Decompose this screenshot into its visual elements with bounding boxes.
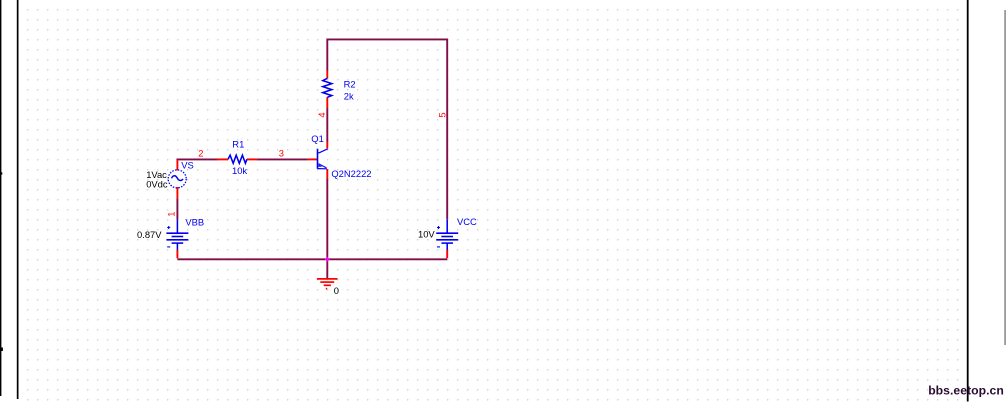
svg-text:0.87V: 0.87V — [137, 229, 162, 240]
svg-text:1: 1 — [165, 211, 176, 216]
svg-text:R2: R2 — [344, 79, 356, 90]
svg-text:5: 5 — [436, 112, 447, 117]
svg-text:10k: 10k — [232, 165, 247, 176]
svg-text:0Vdc: 0Vdc — [146, 179, 168, 190]
svg-text:Q2N2222: Q2N2222 — [331, 168, 371, 179]
svg-text:VCC: VCC — [457, 216, 477, 227]
svg-text:2k: 2k — [344, 91, 354, 102]
svg-text:4: 4 — [316, 112, 327, 117]
svg-text:VS: VS — [181, 160, 194, 171]
svg-text:R1: R1 — [232, 139, 244, 150]
svg-text:VBB: VBB — [185, 217, 204, 228]
svg-text:Q1: Q1 — [311, 133, 324, 144]
svg-text:bbs.eetop.cn: bbs.eetop.cn — [928, 383, 1004, 397]
svg-text:2: 2 — [198, 147, 203, 158]
svg-text:10V: 10V — [418, 228, 435, 239]
svg-text:3: 3 — [279, 147, 284, 158]
svg-text:0: 0 — [334, 285, 339, 296]
